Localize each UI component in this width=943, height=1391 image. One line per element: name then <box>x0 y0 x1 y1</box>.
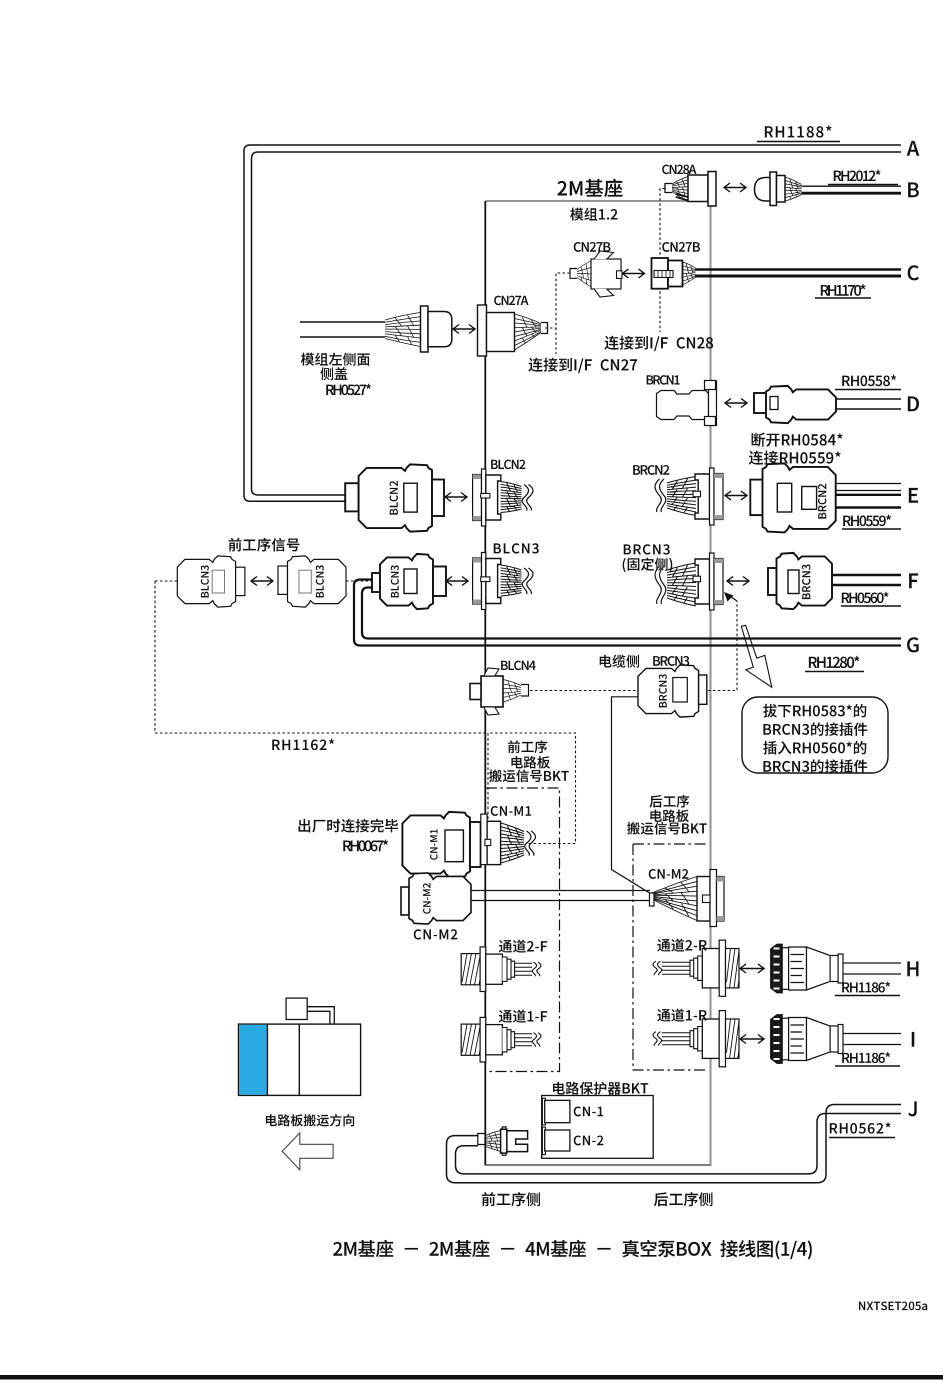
label RH0067* <box>343 840 351 851</box>
connector RH1186 cone <box>807 947 831 990</box>
dashed signal line RH1162 left vertical <box>154 581 156 733</box>
channel connector coil <box>726 1019 740 1058</box>
connector RH1186 ferrule <box>830 1026 838 1052</box>
net label E <box>909 488 918 503</box>
connector BRCN3 cable-side inner rect <box>673 678 688 703</box>
label CN27B right <box>662 242 669 252</box>
note box (replug BRCN3) <box>742 697 888 773</box>
net label F <box>909 573 918 588</box>
cable G (RH1280) with loop from BLCN3 plug <box>354 580 901 646</box>
socket plug <box>695 559 710 604</box>
label CN27A <box>494 296 501 306</box>
socket BLCN3 wire curl <box>522 568 528 594</box>
connector J plug front <box>501 1129 507 1153</box>
note box text line3 <box>763 741 776 755</box>
label NXTSET205a <box>859 1302 865 1311</box>
connector BRCN1 tab bottom <box>705 417 716 426</box>
connector BLCN3 plug 1 inner rect <box>212 570 224 593</box>
connector BLCN3 plug 2 inner rect <box>299 570 311 593</box>
net label B <box>908 182 919 197</box>
connector RH1186 neck <box>782 948 788 990</box>
label BRCN3 fixed 1 <box>624 544 631 554</box>
dash-dot box around CN-M1 / channel F connectors <box>486 788 560 1072</box>
connector CN-M1 mating stub <box>470 822 481 867</box>
label BRCN3 cable side <box>653 656 660 666</box>
connector CN-M2-R key bump <box>703 895 711 903</box>
label RH2012* <box>834 171 842 181</box>
cable E (RH0559) <box>836 483 901 485</box>
connector RH0558 inner mark <box>770 397 778 410</box>
connector RH0559 body <box>763 463 836 532</box>
arrow between BRCN3 and RH0560 <box>727 577 749 586</box>
dashed signal line RH1162 bottom horizontal <box>155 732 488 734</box>
connector RH0527 capsule body <box>428 312 452 347</box>
connector RH0560 inner rect <box>788 570 799 594</box>
socket narrow rect <box>714 474 723 520</box>
connector RH0560 body <box>777 553 833 609</box>
channel connector ferrule rings <box>690 956 702 980</box>
connector CN27A flange <box>478 305 487 356</box>
connector CN27A wire bracket <box>541 323 548 334</box>
arrow between BRCN1 and RH0558 <box>725 399 747 408</box>
cable from cable-side BRCN3 down to CN-M2 connector <box>612 697 653 895</box>
CN-1 tab <box>542 1098 545 1125</box>
socket plug <box>486 559 501 604</box>
label RH1186* H <box>842 982 849 992</box>
label module left side cover 1 <box>301 353 314 366</box>
connector RH1186 ferrule <box>830 956 838 982</box>
connector BLCN3 plug 3 body <box>380 554 433 609</box>
connector RH0560 label BRCN3 <box>802 564 810 599</box>
connector BLCN2 cable stub <box>345 483 358 511</box>
connector CN27B contact bar <box>654 271 673 278</box>
label rear process side <box>654 1192 668 1206</box>
connector RH2012 flange <box>770 172 777 206</box>
connector CN27B right tab <box>617 271 623 279</box>
channel connector flange <box>719 940 725 996</box>
net label D <box>908 396 919 411</box>
label channel 1-F <box>499 1010 512 1023</box>
connector BRCN3 cable-side label <box>659 674 667 707</box>
label connect RH0559* <box>749 451 763 465</box>
label front process signal <box>229 538 242 551</box>
socket key bump <box>481 577 490 582</box>
connector BLCN2 mating stub <box>432 480 444 517</box>
connector BRCN3 cable-side stub <box>699 675 707 704</box>
label front process BKT 1 <box>508 740 520 753</box>
socket narrow rect <box>473 475 482 521</box>
socket narrow rect <box>473 558 482 604</box>
connector RH0527 wire fan <box>385 313 420 347</box>
label front process BKT 3 <box>489 769 502 782</box>
connector RH0558 stub <box>754 393 766 413</box>
connector CN-M1 inner rect <box>445 830 463 862</box>
connector RH0559 stub <box>750 480 762 515</box>
cable A loop (RH1188) double line <box>244 145 901 501</box>
label BLCN3 socket <box>494 543 501 553</box>
connector CN27B wire bracket <box>570 269 577 279</box>
connector BLCN3 plug 3 stub left <box>372 573 380 592</box>
board diagram divider 1 <box>266 1024 268 1095</box>
net label H <box>907 961 918 976</box>
connector CN28A wire fan <box>672 177 688 201</box>
cable J (RH0562) loop double line <box>447 1105 902 1183</box>
label CN-M1 <box>491 806 498 816</box>
channel connector ferrule rings <box>502 957 514 981</box>
socket BRCN3 fixed-side wire curl <box>660 566 666 604</box>
channel connector body <box>486 1025 503 1055</box>
cable D (RH0558) <box>836 398 901 400</box>
arrow between plug3 and socket <box>446 577 468 586</box>
socket BLCN2 wire curl <box>522 485 528 511</box>
label BRCN2 <box>633 465 640 475</box>
label RH0527* <box>326 385 334 395</box>
connector CN-M2-R ferrule <box>650 893 655 906</box>
label RH0558* <box>842 376 850 386</box>
socket key bump <box>693 576 701 582</box>
connector CN27B chevron top <box>594 251 614 259</box>
net label I <box>912 1032 915 1047</box>
label RH1162* <box>272 740 280 750</box>
label connect to I/F CN28 <box>604 336 618 350</box>
connector BLCN3 plug 2 body <box>288 556 347 607</box>
cable CN-M2 to CN-M2 double line <box>471 890 650 892</box>
channel connector wire curl <box>532 962 536 976</box>
board diagram blue cell <box>239 1025 267 1095</box>
connector BLCN3 plug 1 stub <box>236 567 245 595</box>
dashed line from CN27A/CN27B to I/F CN27 label <box>545 273 570 354</box>
channel connector coil <box>461 1024 483 1055</box>
connector CN27B (harness side) body <box>591 259 621 289</box>
label rear process BKT 2 <box>650 810 661 822</box>
socket BLCN2 wire fan <box>501 482 522 513</box>
connector BLCN4 body <box>481 676 503 707</box>
dash-dot box around CN-M2 / channel R connectors <box>633 844 707 1070</box>
connector CN27B (module side) flange <box>652 258 669 289</box>
connector RH1186 black ribbed cap <box>771 944 783 993</box>
channel connector wire curl <box>532 1033 536 1047</box>
CN-1 box <box>545 1100 570 1122</box>
dotted box front-process circuit-board signal BKT <box>488 733 576 844</box>
channel connector coil <box>726 949 740 988</box>
label rear process BKT 1 <box>650 795 663 808</box>
socket BRCN3 fixed-side wire fan <box>667 563 696 606</box>
label CN27B left <box>574 242 581 252</box>
label cable side <box>600 655 612 668</box>
board diagram duct lines <box>307 1007 334 1024</box>
dashed lead into BLCN3 plug 1 <box>155 580 177 582</box>
connector J plug body <box>507 1131 528 1152</box>
connector CN27A body <box>487 313 515 352</box>
connector J wire fan <box>485 1131 501 1152</box>
label 2M base <box>557 181 567 196</box>
connector CN27B chevron bottom <box>594 289 614 297</box>
arrow between RH0527 and CN27A <box>453 325 475 334</box>
connector BRCN1 flange <box>709 381 717 426</box>
connector BLCN3 plug 1 body <box>177 556 235 607</box>
socket CN-M1 plug <box>487 821 501 864</box>
channel connector wires <box>515 1034 532 1046</box>
connector RH1186 black ribbed cap <box>771 1015 783 1064</box>
connector BLCN4 wire fan <box>503 680 521 703</box>
channel connector body <box>702 949 719 988</box>
board diagram small box <box>286 998 307 1019</box>
channel connector body <box>702 1019 719 1058</box>
label channel 1-R <box>657 1009 670 1022</box>
channel connector body <box>486 954 503 984</box>
channel connector ferrule rings <box>502 1028 514 1052</box>
net label G <box>907 637 919 652</box>
board diagram divider 2 <box>298 1024 300 1095</box>
connector CN28A wire bracket <box>665 184 672 193</box>
dashed link plug2 to plug3 <box>346 580 374 582</box>
socket BRCN2 wire fan <box>667 477 696 516</box>
channel connector flange <box>480 1017 486 1062</box>
arrow between CN28A and RH2012 <box>724 183 746 192</box>
label board transfer direction <box>266 1114 277 1126</box>
connector RH2012 body <box>777 176 786 203</box>
channel connector flange <box>480 947 486 992</box>
hollow arrow pointing to note box <box>741 625 772 687</box>
connector RH0560 stub <box>768 568 777 595</box>
label RH1280* <box>809 657 817 668</box>
connector J wire bracket <box>478 1134 485 1145</box>
2M base board outline (right edge, gray) <box>709 201 711 1165</box>
label factory connected <box>299 819 311 832</box>
connector BLCN3 plug 3 inner rect <box>404 569 417 594</box>
channel connector wire curl <box>658 1032 662 1046</box>
socket plug <box>695 474 710 519</box>
cable H (RH1186) <box>843 962 901 964</box>
label RH0560* <box>842 593 850 603</box>
channel connector wires <box>515 963 532 975</box>
socket plug <box>486 475 501 520</box>
label RH1170* <box>821 285 829 296</box>
socket BLCN3 wire fan <box>501 565 522 596</box>
arrow between plug1 and plug2 <box>251 577 273 586</box>
connector BRCN1 tab top <box>705 381 716 390</box>
arrow I row <box>740 1035 764 1044</box>
label BRCN3 fixed 2 <box>623 558 626 572</box>
connector CN-M2-R plug <box>697 877 710 922</box>
connector RH1186 cone <box>807 1018 831 1061</box>
note box text line2 <box>763 724 771 735</box>
label channel 2-R <box>657 939 670 952</box>
connector CN-M2 label vertical <box>423 883 431 914</box>
label CN-1 <box>574 1106 581 1116</box>
board diagram main box <box>239 1024 361 1095</box>
connector CN-M1 label vertical <box>430 829 438 859</box>
2M base board outline (bottom edge) <box>484 1164 711 1166</box>
connector CN-M1 body <box>402 812 470 877</box>
label module 1.2 <box>570 208 583 221</box>
connector CN27B wire fan to cable C <box>683 262 696 285</box>
cable B (RH2012) <box>802 185 902 187</box>
connector CN28A flange <box>708 172 716 207</box>
CN-2 box <box>545 1130 570 1151</box>
cable I (RH1186) <box>843 1033 901 1035</box>
label rear process BKT 3 <box>627 822 640 835</box>
diagram title <box>333 1242 342 1256</box>
arrow between BLCN2 plug and socket <box>445 493 467 502</box>
net label J <box>908 1101 917 1116</box>
connector CN-M2 body <box>409 873 471 924</box>
note box text line1 <box>763 704 777 717</box>
arrow between CN27B pair <box>623 269 645 278</box>
connector BRCN1 body <box>657 391 709 420</box>
socket flange <box>710 553 715 610</box>
connector BLCN3 plug 3 label <box>391 565 399 597</box>
connector CN28A socket body <box>688 175 708 202</box>
connector CN-M2-R wire fan <box>652 877 697 921</box>
connector BLCN3 plug 1 label <box>201 565 209 597</box>
bottom rule <box>0 1375 943 1380</box>
connector BLCN2 body <box>359 464 432 531</box>
label connect to I/F CN27 <box>528 358 542 372</box>
label RH1188* <box>765 126 773 137</box>
label channel 2-F <box>499 940 512 953</box>
connector RH1186 lobed nut <box>789 947 807 990</box>
channel connector wires <box>662 962 690 974</box>
connector BLCN4 wire bracket <box>521 685 529 697</box>
connector BLCN4 chevron top <box>484 668 499 676</box>
connector BLCN2 inner rect <box>404 483 417 512</box>
connector RH0559 inner rect 1 <box>777 483 791 512</box>
label RH1186* I <box>842 1053 849 1063</box>
2M base board outline (left edge) <box>484 201 486 1165</box>
label CN-2 <box>574 1135 581 1145</box>
connector BLCN4 chevron bottom <box>484 708 499 716</box>
connector BLCN2 label <box>390 481 398 515</box>
socket BRCN2 wire curl <box>660 479 666 512</box>
connector CN27B wire fan <box>577 261 591 287</box>
socket flange <box>710 468 715 525</box>
label RH0562* <box>830 1123 838 1133</box>
connector CN-M2-R outer rect <box>717 877 725 922</box>
connector RH1186 lobed nut <box>789 1018 807 1061</box>
note box text line4 <box>763 761 771 772</box>
2M base board outline (top edge) <box>485 200 710 202</box>
channel connector wire curl <box>658 961 662 975</box>
connector RH0559 label BRCN2 <box>818 484 826 519</box>
CN-2 tab <box>542 1127 545 1155</box>
connector BLCN3 plug 2 label <box>316 565 324 597</box>
label CN-M2 left <box>414 929 422 939</box>
cable F (RH0560) <box>832 574 901 576</box>
label BLCN4 <box>501 661 508 670</box>
connector BLCN3 plug 2 stub <box>278 566 288 594</box>
connector RH0558 body <box>766 386 836 423</box>
dashed link cable-side BRCN3 to fixed BRCN3 with up arrow <box>708 601 737 691</box>
arrow between BRCN2 and RH0559 <box>725 491 747 500</box>
socket narrow rect <box>714 559 723 605</box>
circuit breaker BKT box <box>542 1096 654 1159</box>
connector BLCN4 left cell <box>470 684 481 700</box>
label module left side cover 2 <box>320 367 333 380</box>
label RH0559* <box>843 516 851 526</box>
connector BLCN3 plug 3 mating stub <box>433 567 446 597</box>
connector BRCN3 cable-side body <box>638 665 699 717</box>
net label C <box>908 265 919 280</box>
connector CN-M2-R flange <box>710 870 717 927</box>
arrow H row <box>740 964 764 973</box>
label disconnect RH0584* <box>752 433 766 447</box>
label front process side <box>482 1192 496 1206</box>
label BRCN1 <box>647 375 654 384</box>
socket flange <box>482 469 486 526</box>
socket CN-M1 wire fan <box>501 823 524 863</box>
connector RH2012 capsule <box>755 178 773 202</box>
connector CN27A wire fan <box>515 314 542 350</box>
label breaker BKT <box>553 1082 565 1095</box>
channel connector flange <box>719 1011 725 1067</box>
label CN28A <box>662 165 669 175</box>
connector CN27B (module side) body <box>668 261 683 287</box>
socket CN-M1 wire curl <box>525 831 531 856</box>
channel connector wires <box>662 1033 690 1045</box>
socket CN-M1 flange <box>481 814 487 865</box>
cable RH0527 lines <box>300 321 385 323</box>
label CN-M2 right <box>649 869 656 879</box>
connector RH1186 neck <box>782 1018 788 1060</box>
cable C (RH1170) <box>695 268 901 270</box>
channel connector ferrule rings <box>690 1027 702 1051</box>
connector RH0559 inner rect 2 <box>802 487 817 510</box>
dashed line from CN28A to I/F CN28 label <box>660 189 665 333</box>
dashed link BLCN4 to cable-side BRCN3 <box>530 690 637 692</box>
socket flange <box>482 553 486 610</box>
connector J plug ears <box>502 1127 506 1155</box>
socket key bump <box>481 493 490 498</box>
connector CN-M2 stub <box>401 887 409 915</box>
socket CN-M1 key bump <box>485 839 491 845</box>
connector RH0527 flange bar <box>421 306 429 352</box>
direction arrow (hollow, pointing left) <box>282 1133 333 1170</box>
connector RH2012 wire fan converging to cable <box>785 177 802 201</box>
label front process BKT 2 <box>511 756 522 768</box>
label BLCN2 <box>491 460 498 469</box>
channel connector coil <box>461 954 483 985</box>
net label A <box>907 141 920 156</box>
socket key bump <box>693 491 701 497</box>
